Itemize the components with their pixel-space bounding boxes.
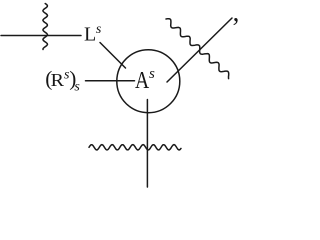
svg-text:,: , bbox=[233, 0, 240, 27]
ring A bbox=[117, 50, 180, 113]
svg-text:A: A bbox=[135, 66, 149, 93]
node: bottom squiggle attachment mark bbox=[89, 145, 181, 150]
node: upper-right squiggle attachment mark bbox=[166, 19, 229, 79]
svg-text:R: R bbox=[51, 71, 65, 91]
svg-text:L: L bbox=[84, 24, 96, 46]
wire: bond (R)s to ring bbox=[86, 80, 135, 82]
wire: left horizontal bond bbox=[1, 35, 81, 37]
node: vertical squiggle attachment mark bbox=[43, 4, 48, 50]
svg-text:s: s bbox=[74, 80, 80, 95]
wire: bond L to ring bbox=[100, 43, 126, 69]
svg-text:s: s bbox=[96, 22, 102, 37]
wire: bottom vertical bond bbox=[146, 100, 148, 188]
svg-text:s: s bbox=[149, 66, 155, 82]
wire: upper-right diagonal bond bbox=[167, 18, 232, 82]
